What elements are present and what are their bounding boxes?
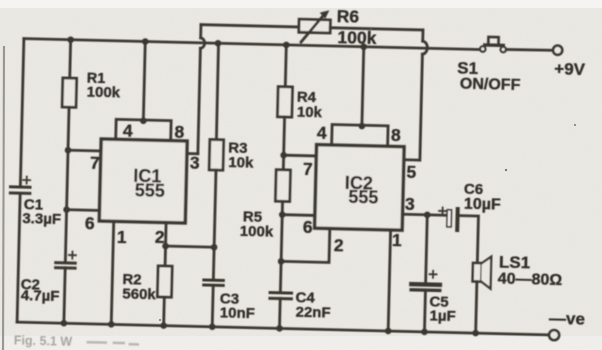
resistor R3 — [209, 139, 254, 172]
wire top supply rail — [24, 39, 480, 50]
wire R4 to R5 — [283, 117, 284, 170]
op-amp U2 pins 4-8 strap IC2 — [332, 125, 388, 147]
node rail junction R4 — [283, 42, 290, 49]
wire pin 2 branch to C3 — [166, 246, 215, 247]
capacitor C4 — [269, 288, 331, 321]
resistor R4 — [277, 87, 323, 121]
wire C5 to ground — [424, 290, 425, 332]
wire hop over rail right — [422, 41, 427, 54]
node pin 2 junction — [162, 243, 169, 250]
wire R2 to ground — [162, 297, 165, 326]
capacitor C5 — [410, 270, 456, 325]
wire R3 to C3 — [213, 170, 216, 279]
node junction R4 R5 pin7 — [280, 152, 287, 159]
wire pin 1 IC2 to ground — [388, 230, 390, 331]
wire pin 7 stub IC1 — [68, 149, 101, 153]
node ground C4 — [276, 325, 283, 332]
node pin6 junction — [63, 206, 70, 213]
node ground C2 — [60, 320, 67, 327]
wire R1 column top — [68, 40, 72, 78]
wire C6 to speaker corner — [458, 216, 478, 263]
wire riser to R6 line — [199, 25, 202, 38]
node ground pin1 IC2 — [385, 328, 392, 335]
node +9V terminal — [553, 45, 562, 54]
capacitor C1 — [10, 176, 62, 228]
wire drop to pin 5 IC2 — [420, 54, 423, 160]
op-amp U1 pins 4-8 strap IC1 — [116, 119, 171, 140]
node rail junction R3 — [215, 40, 222, 47]
op-amp U2 IC2 555 — [315, 145, 404, 231]
node rail junction IC1 supply — [142, 38, 149, 45]
wire pin 6 stub IC2 — [282, 213, 315, 217]
wire C4 to ground — [278, 299, 282, 329]
wire left rail upper — [20, 39, 24, 186]
wire R1 to C2 column — [65, 107, 69, 261]
wire pin 5 stub IC2 — [404, 158, 420, 161]
resistor R2 — [122, 265, 172, 304]
wire pin 1 IC1 to ground — [111, 221, 113, 324]
wire switch to +9V terminal — [506, 49, 553, 50]
wire R6 loop right — [330, 28, 423, 30]
node ground C5 — [421, 329, 428, 336]
node rail junction R1 — [67, 36, 74, 43]
wire rail to IC1 pins 4-8 — [143, 41, 145, 119]
node junction pin2 IC2 branch — [278, 258, 285, 265]
wire rail to R3 — [216, 43, 219, 139]
wire C5 branch down — [426, 215, 428, 282]
resistor R6 potentiometer — [298, 5, 377, 48]
node ground R2 — [160, 322, 167, 329]
wire pin3 node to C6 — [427, 213, 447, 216]
wire C3 to ground — [211, 285, 215, 327]
capacitor C2 — [20, 250, 76, 305]
node -ve terminal — [549, 330, 559, 340]
wire pin 2 IC2 down — [281, 227, 330, 262]
wire hop over rail left — [200, 38, 204, 49]
speaker LS1 — [472, 252, 563, 290]
wire pin 7 stub IC2 — [284, 154, 317, 158]
wire pin 2 IC1 down — [165, 223, 166, 266]
wire IC1 output riser — [198, 48, 201, 153]
wire bottom ground rail — [17, 322, 549, 335]
node junction pin6 IC2 — [279, 211, 286, 218]
node ground speaker — [472, 330, 479, 337]
node pins 4-8 tie IC1 — [140, 117, 147, 124]
wire R5 to C4 — [280, 201, 282, 291]
capacitor C6 — [439, 180, 502, 231]
node rail junction IC2 supply — [360, 43, 367, 50]
resistor R1 — [62, 70, 121, 108]
node pins 4-8 tie IC2 — [359, 123, 366, 130]
wire speaker to ground — [476, 282, 477, 334]
node ground pin1 IC1 — [108, 321, 115, 328]
node junction R3 C3 pin2 — [211, 244, 218, 251]
wire pin 3 stub IC1 — [187, 152, 198, 155]
wire C2 to ground — [64, 268, 65, 323]
wire rail to R4 — [285, 45, 286, 87]
switch S1 — [457, 36, 522, 94]
wire rail to IC2 pins 4-8 — [362, 47, 364, 125]
node ground C3 — [209, 323, 216, 330]
op-amp U1 IC1 555 — [99, 139, 187, 223]
wire left rail lower — [17, 194, 20, 322]
wire pin 6 stub IC1 — [67, 208, 100, 212]
node pin7 junction — [65, 147, 72, 154]
page edge scan artifact — [3, 46, 4, 350]
capacitor C3 — [203, 280, 256, 322]
resistor R5 — [240, 169, 291, 241]
wire R6 loop left — [201, 25, 299, 27]
wire pin 3 stub IC2 — [402, 213, 427, 216]
node junction pin3 IC2 — [424, 211, 431, 218]
wire R6 right drop — [421, 30, 424, 41]
